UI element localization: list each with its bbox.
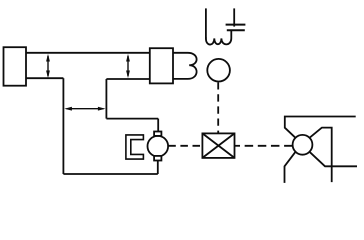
arrow V1 (vertical double arrow at left) — [46, 54, 50, 78]
wire middle vertical — [105, 79, 107, 119]
arrow H1 (horizontal double arrow) — [64, 107, 105, 111]
wire bottom stub from B1 — [26, 77, 63, 79]
wire drop to motor top — [157, 119, 159, 132]
engine upper-left arm and top rail — [285, 117, 356, 138]
engine circle E1 — [293, 135, 313, 155]
coupling bellows right of B2 — [173, 53, 197, 79]
wire bottom rail — [63, 173, 157, 175]
wire step to block B2 — [106, 78, 149, 80]
capacitor lower plate — [227, 29, 245, 31]
valve X-box — [202, 133, 234, 158]
wire lower step horizontal — [106, 118, 158, 120]
block B1 (left slider block) — [4, 47, 27, 85]
wire left vertical drop — [62, 78, 64, 174]
dashed link from gauge to valve — [217, 82, 219, 133]
engine lower-left arm and drop — [285, 152, 296, 183]
engine lower-right arm and bottom rail — [310, 152, 358, 167]
arrow V2 (vertical double arrow at middle) — [126, 54, 130, 78]
motor M1 circle — [148, 136, 169, 157]
motor brush bottom — [154, 156, 161, 161]
block B2 (middle slider block) — [150, 48, 173, 83]
reservoir left pipe — [205, 8, 207, 38]
capacitor upper plate — [226, 24, 246, 26]
motor brush top — [154, 132, 161, 136]
dashed shaft valve to engine — [245, 145, 293, 147]
gauge circle G1 — [207, 59, 230, 82]
wire riser to motor bottom — [157, 161, 159, 175]
reservoir scallops — [206, 30, 231, 44]
solid stub right of valve — [235, 145, 241, 147]
engine upper-right arm and right drop — [310, 128, 332, 183]
dashed shaft motor to valve — [168, 145, 202, 147]
capacitor lead — [233, 8, 235, 26]
wire top rail from B1 to block B2 — [26, 52, 150, 54]
stator C-bracket left of motor — [126, 135, 143, 159]
